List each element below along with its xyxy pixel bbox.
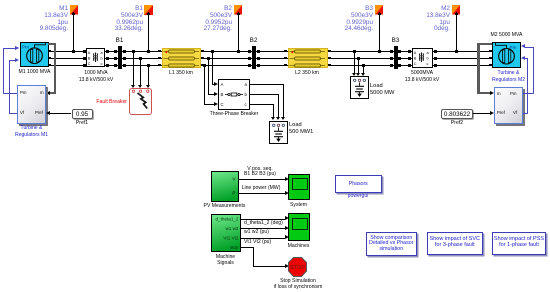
svg-text:B: B — [414, 56, 417, 60]
svg-text:A: A — [221, 82, 224, 87]
svg-text:B: B — [88, 56, 91, 60]
svg-text:c: c — [101, 61, 103, 65]
svg-text:P: P — [232, 191, 235, 196]
svg-text:C: C — [414, 61, 417, 65]
svg-text:C: C — [88, 61, 91, 65]
svg-text:b: b — [427, 56, 429, 60]
svg-text:stop: stop — [230, 245, 239, 250]
svg-text:Pm: Pm — [510, 45, 517, 50]
svg-text:A: A — [414, 50, 417, 54]
svg-text:Pm: Pm — [22, 45, 29, 50]
svg-text:C: C — [221, 102, 224, 107]
svg-text:Vt1 Vt2: Vt1 Vt2 — [223, 235, 239, 240]
svg-text:b: b — [101, 56, 103, 60]
svg-text:A: A — [88, 50, 91, 54]
svg-text:STOP: STOP — [290, 265, 305, 271]
svg-text:c: c — [427, 61, 429, 65]
svg-text:B: B — [221, 92, 224, 97]
svg-text:d_theta1_2: d_theta1_2 — [216, 216, 239, 221]
svg-text:w1 w2: w1 w2 — [225, 226, 238, 231]
